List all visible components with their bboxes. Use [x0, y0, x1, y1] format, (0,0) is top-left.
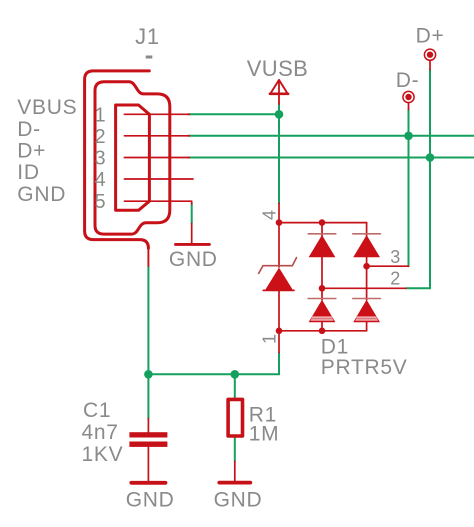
pinhead D+ stub — [429, 61, 431, 70]
svg-text:ID: ID — [17, 161, 39, 184]
wire R1 bottom — [234, 438, 236, 462]
svg-text:3: 3 — [390, 247, 400, 267]
D1 dot pin4 — [276, 219, 283, 226]
wire D+ net row — [188, 157, 474, 159]
svg-text:VBUS: VBUS — [17, 96, 77, 119]
D1 diode bottom-right band stripe — [356, 318, 377, 320]
C1 top plate — [129, 432, 167, 437]
ground pin5 lead — [191, 223, 193, 243]
D1 right column upper stem — [366, 223, 368, 236]
svg-text:PRTR5V: PRTR5V — [321, 356, 408, 379]
svg-text:2: 2 — [94, 126, 105, 148]
D1 top rail — [279, 222, 367, 224]
svg-text:2: 2 — [390, 269, 400, 289]
ground R1 bar — [219, 481, 250, 485]
D1 diode top-left bar — [308, 233, 336, 235]
connector J1 inner tongue — [116, 105, 150, 210]
wire VUSB stub — [278, 104, 280, 114]
pin 4 — [124, 178, 193, 180]
svg-text:4: 4 — [94, 169, 105, 191]
D1 dot bottom-left — [319, 328, 326, 335]
wire VBUS net pin1 to VUSB junction — [188, 113, 279, 115]
pin 1 — [124, 113, 189, 115]
D1 left column upper stem — [321, 223, 323, 236]
svg-text:GND: GND — [17, 183, 66, 206]
D1 pin3 lead — [367, 265, 409, 267]
svg-text:GND: GND — [214, 489, 263, 512]
svg-text:1M: 1M — [249, 423, 280, 446]
D1 right column low stem — [366, 322, 368, 331]
wire D1 pin2 horizontal — [406, 287, 430, 289]
C1 bottom lead — [147, 447, 149, 481]
connector J1 outer shield outline — [85, 71, 150, 248]
svg-text:1: 1 — [94, 104, 105, 126]
supply VUSB base bar — [270, 93, 288, 96]
D1 dot pin1 — [276, 328, 283, 335]
wire down to R1 — [234, 374, 236, 399]
D1 middle rail — [322, 287, 406, 289]
D1 dot top-left — [319, 219, 326, 226]
svg-text:D+: D+ — [416, 25, 445, 48]
pinhead D+ dot — [427, 52, 433, 58]
D1 left column low stem — [321, 322, 323, 331]
D1 right column mid stem — [366, 257, 368, 300]
D1 diode top-left triangle — [309, 235, 336, 257]
wire D- net row — [188, 135, 474, 137]
svg-text:J1: J1 — [135, 24, 160, 49]
D1 zener base line — [263, 289, 294, 291]
wire shell stub — [147, 247, 149, 266]
svg-text:1: 1 — [260, 334, 280, 344]
pin 3 — [124, 157, 189, 159]
D1 zener triangle — [265, 268, 292, 290]
svg-text:C1: C1 — [83, 399, 111, 422]
label J1 value dash — [146, 56, 153, 59]
connector J1 shell profile outline — [95, 82, 170, 234]
pinhead D+ ring — [424, 49, 435, 60]
svg-text:4n7: 4n7 — [82, 421, 119, 444]
ground C1 bar — [131, 481, 165, 485]
ground pin5 bar — [176, 243, 210, 246]
pinhead D- dot — [405, 94, 411, 100]
C1 bottom plate — [129, 442, 167, 447]
D1 diode bottom-right pink band — [355, 316, 378, 320]
R1 bottom lead red — [234, 461, 236, 481]
junction D+ — [426, 153, 435, 162]
D1 bottom rail — [279, 330, 367, 332]
pinhead D- stub — [408, 103, 410, 110]
supply VUSB triangle — [270, 80, 287, 94]
D1 diode bottom-left triangle — [309, 300, 336, 322]
D1 diode top-right triangle — [353, 235, 380, 257]
junction bottom left — [144, 370, 153, 379]
D1 diode bottom-left bar — [308, 298, 336, 300]
wire down to C1 — [147, 374, 149, 418]
D1 zener column lower — [278, 290, 280, 330]
supply VUSB center line — [278, 81, 280, 105]
wire VUSB junction down to D1 pin4 — [278, 114, 280, 203]
wire D- vertical — [408, 110, 410, 267]
D1 zener cathode bar with hooks — [259, 258, 297, 274]
svg-text:1KV: 1KV — [82, 443, 124, 466]
D1 diode bottom-right triangle — [353, 300, 380, 322]
pin 5 — [124, 201, 191, 204]
junction D- — [404, 132, 413, 141]
wire shell down — [147, 266, 149, 374]
D1 left column mid stem — [321, 257, 323, 300]
D1 dot mid-left — [319, 285, 326, 292]
junction VUSB — [275, 110, 284, 119]
D1 diode bottom-right bar — [353, 298, 381, 300]
pinhead D- ring — [403, 91, 414, 102]
wire riser to D1 pin1 — [278, 353, 280, 375]
wire D+ vertical — [429, 70, 431, 289]
C1 top lead — [147, 419, 149, 433]
svg-text:D+: D+ — [17, 140, 46, 163]
R1 body — [228, 399, 242, 436]
svg-text:GND: GND — [126, 489, 175, 512]
D1 diode bottom-left pink band — [311, 316, 334, 320]
svg-text:GND: GND — [169, 248, 218, 271]
D1 pin1 lead — [278, 331, 280, 353]
D1 pin4 lead — [278, 203, 280, 222]
svg-text:D-: D- — [396, 69, 420, 92]
wire pin5 to GND — [191, 204, 193, 224]
pin 2 — [124, 135, 189, 137]
D1 diode top-right bar — [353, 233, 381, 235]
svg-text:4: 4 — [260, 210, 280, 220]
svg-text:3: 3 — [94, 148, 105, 170]
D1 diode bottom-left band stripe — [312, 318, 333, 320]
svg-text:5: 5 — [94, 191, 105, 213]
D1 zener column upper — [278, 223, 280, 267]
D1 dot pin3 — [363, 263, 370, 270]
svg-text:VUSB: VUSB — [247, 56, 309, 81]
junction R1 top — [231, 370, 240, 379]
svg-text:D-: D- — [17, 118, 41, 141]
wire bottom horizontal — [148, 373, 279, 375]
